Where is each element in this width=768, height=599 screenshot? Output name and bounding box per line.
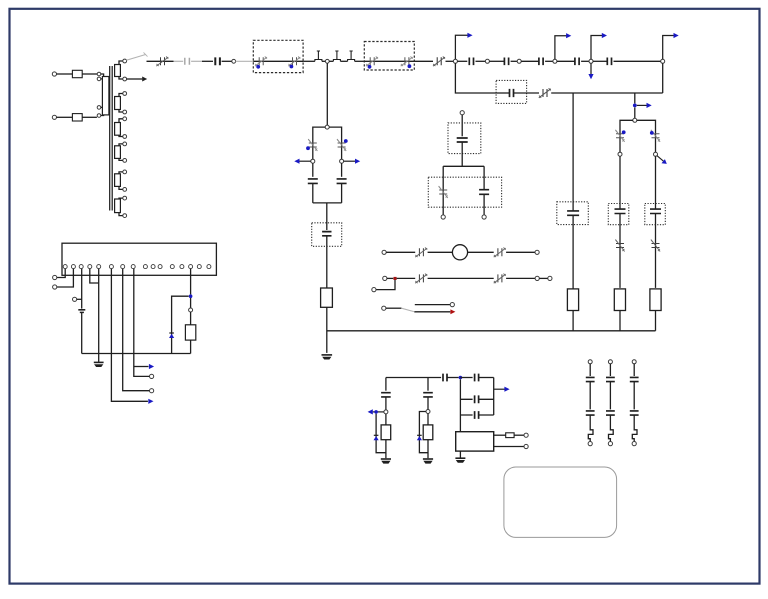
capacitor CF2 box (dashed) — [608, 204, 629, 225]
breaker F3 — [652, 134, 660, 138]
wire — [593, 60, 607, 62]
wire snubber right leg — [493, 378, 495, 416]
capacitor C13 — [423, 393, 433, 397]
wire — [428, 251, 453, 253]
wire center drop — [326, 63, 328, 125]
transformer T1 secondary winding S5 — [115, 174, 121, 187]
wire split F2 F3 — [620, 120, 656, 152]
wire — [397, 277, 416, 279]
terminal branch G2 bottom — [608, 442, 612, 446]
breaker K1 — [309, 143, 317, 147]
capacitor CG2b — [606, 411, 615, 415]
thyristor valve group box V2 (dashed) — [364, 42, 414, 71]
wire — [457, 60, 467, 62]
wire pin3 out — [81, 269, 83, 309]
transformer T1 primary winding — [102, 77, 109, 115]
transformer T1 core — [110, 66, 113, 211]
arrow pin6 — [148, 399, 153, 404]
wire — [506, 251, 535, 253]
wire — [340, 60, 347, 62]
wire — [551, 92, 663, 94]
wire — [190, 340, 192, 353]
node F3 — [654, 152, 658, 156]
wire branch G2 — [609, 364, 611, 376]
wire — [427, 397, 429, 410]
status dot V2a — [368, 65, 372, 69]
wire top rail — [386, 377, 441, 379]
terminal branch G3 top — [632, 360, 636, 364]
wire — [386, 307, 402, 309]
connector J1 pin 12 — [170, 265, 174, 269]
node leg1 — [384, 410, 388, 414]
capacitor CG1a — [586, 377, 595, 381]
connector J1 pin 3 — [79, 265, 83, 269]
wire pin4 out — [90, 269, 99, 283]
node N1 — [453, 59, 457, 63]
transformer T1 secondary winding S6 — [115, 199, 121, 213]
wire — [385, 440, 387, 459]
capacitor C12 — [381, 393, 391, 397]
thyristor valve group box V1 (dashed) — [253, 40, 303, 72]
capacitor C14 — [475, 395, 479, 403]
breaker V2b — [405, 57, 409, 65]
wire — [329, 60, 333, 62]
wire split arms — [313, 127, 342, 159]
connector J1 pin 1 — [63, 265, 67, 269]
wire — [447, 377, 459, 379]
capacitor C3 — [469, 58, 473, 66]
wire — [82, 116, 97, 118]
wire — [57, 116, 73, 118]
wire through V1 — [253, 60, 303, 62]
capacitor C16 box (dashed) — [448, 123, 481, 154]
module U1 — [456, 432, 494, 451]
wire loop right drop — [662, 63, 664, 93]
wire — [514, 434, 524, 436]
connector J1 pin 4 — [88, 265, 92, 269]
terminal row2 right A — [535, 276, 539, 280]
switch SW2 blade (open) — [401, 308, 414, 311]
capacitor CF2 — [619, 204, 621, 225]
node terminal — [232, 59, 236, 63]
wire — [468, 251, 494, 253]
stub insulator 2 — [333, 51, 340, 61]
wire filter split bar — [443, 166, 484, 215]
ground center — [322, 354, 333, 356]
terminal branch G1 bottom — [588, 442, 592, 446]
wire — [539, 277, 548, 279]
wire loop left drop — [455, 63, 496, 93]
wire gray segment — [174, 60, 184, 62]
terminal pin7 out — [150, 389, 154, 393]
arrow tap at N1 — [455, 35, 467, 59]
wire through V2 — [364, 60, 414, 62]
capacitor CF3 box (dashed) — [645, 204, 666, 225]
wire — [386, 251, 415, 253]
connector block J1 — [62, 243, 216, 275]
terminal row2 lower-left — [372, 288, 376, 292]
wire — [511, 60, 518, 62]
resistor R4 — [185, 325, 195, 340]
node center split — [325, 125, 329, 129]
terminal row2 right B — [548, 276, 552, 280]
connector J1 pin 16 — [207, 265, 211, 269]
terminal input B — [52, 115, 56, 119]
wire — [633, 382, 635, 410]
node F2 — [618, 152, 622, 156]
disconnector F2 lower — [616, 244, 624, 248]
disconnector DS5 — [419, 274, 423, 282]
wire — [655, 225, 657, 288]
wire — [609, 382, 611, 410]
wire — [506, 277, 535, 279]
resistor R3 — [321, 288, 333, 307]
wire — [572, 311, 574, 331]
capacitor CK2 — [337, 179, 347, 184]
ground J1 — [94, 361, 104, 363]
resistor R7 — [506, 433, 514, 438]
diode D1 — [169, 332, 174, 334]
capacitor C2 — [215, 57, 220, 65]
wire branch G3 jog — [632, 415, 637, 442]
stub insulator 1 — [315, 51, 322, 61]
node primary taps — [97, 72, 101, 76]
wire branch G3 — [633, 364, 635, 376]
wire snubber left leg — [459, 379, 461, 431]
wire — [521, 60, 539, 62]
wire gray segment — [191, 60, 202, 62]
breaker V1a — [259, 57, 263, 65]
annotation frame (rounded) — [504, 467, 617, 537]
wire — [545, 60, 553, 62]
wire — [322, 60, 326, 62]
terminal pin8 out — [150, 374, 154, 378]
wire — [514, 92, 539, 94]
breaker V1b — [293, 57, 297, 65]
wire branch G1 — [589, 364, 591, 376]
arrow down at N5 — [590, 63, 592, 74]
wire gray segment — [236, 60, 254, 62]
wire row3 throw lower with red arrow — [414, 311, 450, 313]
wire pin8 out — [134, 269, 150, 377]
connector J1 pin 15 — [197, 265, 201, 269]
capacitor C5 — [539, 58, 543, 66]
terminal row2 left — [383, 276, 387, 280]
junction dot J1 loop — [189, 294, 193, 298]
wire — [312, 184, 314, 203]
ground leg1 — [381, 458, 391, 460]
capacitor C6 — [575, 58, 579, 66]
capacitor CG1b — [586, 411, 595, 415]
arrow output secondary S1 — [127, 78, 143, 80]
switch SW1 blade (open) at secondary S1 — [126, 54, 146, 60]
wire rejoin — [313, 184, 342, 231]
terminal branch G2 top — [608, 360, 612, 364]
wire — [303, 60, 315, 62]
breaker F2 — [616, 134, 624, 138]
transformer T1 secondary winding S3 — [115, 123, 121, 136]
wire — [461, 115, 463, 137]
capacitor CG3a — [630, 377, 639, 381]
ground bus wire — [327, 330, 656, 332]
connector J1 pin 5 — [97, 265, 101, 269]
wire loop left branch — [172, 296, 189, 353]
node N5 — [589, 59, 593, 63]
connector J1 pin 6 — [109, 265, 113, 269]
wire — [414, 60, 433, 62]
resistor R2 (series input B) — [72, 114, 82, 121]
stub insulator 3 — [348, 51, 355, 61]
terminal branch G1 top — [588, 360, 592, 364]
arrow tap at N5 — [591, 36, 602, 60]
breaker V2a — [370, 57, 374, 65]
arrow left at K1 — [300, 160, 311, 162]
wire — [57, 73, 73, 75]
node N6 — [661, 59, 665, 63]
capacitor CG3b — [630, 411, 639, 415]
capacitor C17 — [479, 190, 489, 195]
status dot K1 — [306, 146, 310, 150]
arrow tap at N4 — [555, 36, 567, 60]
terminal U1 out2 — [524, 444, 528, 448]
wire pin1 out — [57, 269, 65, 278]
arrow right at K2 — [344, 160, 355, 162]
connector J1 pin 10 — [151, 265, 155, 269]
terminal battery tap — [73, 297, 77, 301]
resistor R1 (series input A) — [72, 70, 82, 77]
wire — [387, 277, 393, 279]
arrow tap at N6 — [663, 36, 674, 60]
wire — [77, 298, 82, 300]
resistor R6 — [423, 425, 433, 440]
wire pin5 to ground — [98, 269, 100, 362]
breaker K2 — [338, 143, 346, 147]
connector J1 pin 14 — [189, 265, 193, 269]
capacitor C8 — [510, 89, 514, 97]
wire — [557, 60, 575, 62]
wire branch F1 drop — [572, 93, 574, 202]
capacitor C15 — [475, 411, 479, 419]
wire branch G2 jog — [609, 415, 614, 442]
wire — [589, 382, 591, 410]
node leg2 — [426, 410, 430, 414]
wire — [190, 312, 192, 325]
bus J1 bottom — [82, 353, 191, 355]
disconnector F3 lower — [652, 244, 660, 248]
resistor R5 — [381, 425, 391, 440]
junction dot with arrow — [633, 104, 637, 108]
wire branch G1 jog — [588, 415, 593, 442]
wire pin8 branch arrow — [134, 366, 149, 368]
wire top feeder — [147, 60, 174, 62]
connector J1 pin 11 — [158, 265, 162, 269]
capacitor C8 box (dotted) — [496, 80, 526, 103]
terminal filter left — [441, 215, 445, 219]
transformer T1 secondary winding S1 — [115, 65, 121, 77]
capacitor C16 — [457, 138, 468, 142]
capacitor C9 box (dotted) — [312, 223, 342, 247]
wire — [446, 60, 454, 62]
wire snubber mid rung — [460, 398, 493, 400]
status dot V1b — [290, 65, 294, 69]
wire — [326, 307, 328, 353]
wire — [614, 60, 661, 62]
wire — [655, 311, 657, 331]
node loop — [189, 308, 193, 312]
status dot V2b — [408, 64, 412, 68]
wire — [572, 225, 574, 289]
wire — [326, 236, 328, 288]
capacitor CF3 — [655, 204, 657, 225]
wire — [222, 60, 232, 62]
node N4 — [553, 59, 557, 63]
node N3 — [517, 59, 521, 63]
breaker filter left — [439, 190, 447, 194]
terminal row1 left — [382, 250, 386, 254]
terminal row3 upper — [450, 303, 454, 307]
terminal filter right — [482, 215, 486, 219]
wire — [428, 277, 494, 279]
wire — [312, 163, 314, 177]
capacitor CF1 — [572, 202, 574, 225]
disconnector DS3 — [419, 248, 423, 256]
node K1 — [311, 159, 315, 163]
wire U1 out2 — [494, 446, 524, 448]
wire — [427, 440, 429, 459]
diode D2 — [374, 434, 379, 436]
wire — [355, 60, 365, 62]
status dot K2 — [344, 139, 348, 143]
resistor RF2 — [614, 289, 625, 311]
capacitor C9 — [322, 232, 331, 236]
status dot F3 — [650, 131, 654, 135]
wire — [341, 163, 343, 177]
wire — [385, 397, 387, 410]
junction dot leg1 — [374, 410, 378, 414]
capacitor CK1 — [308, 179, 318, 184]
wire — [202, 60, 213, 62]
wire — [489, 60, 504, 62]
transformer T1 secondary winding S4 — [115, 146, 121, 159]
wire — [634, 107, 636, 118]
capacitor CG2a — [606, 377, 615, 381]
disconnector DS4 — [498, 248, 502, 256]
capacitor CF1 box (dashed) — [557, 202, 589, 225]
terminal branch G3 bottom — [632, 442, 636, 446]
wire — [82, 73, 97, 75]
terminal row3 left — [382, 306, 386, 310]
wire — [461, 142, 463, 166]
connector J1 pin 8 — [131, 265, 135, 269]
node primary bottom taps — [97, 106, 101, 110]
wire — [81, 313, 83, 354]
resistor RF1 — [567, 289, 578, 311]
resistor RF3 — [650, 289, 661, 311]
wire pin7 out — [123, 269, 150, 391]
wire — [619, 225, 621, 288]
wire — [581, 60, 589, 62]
arrow left leg1 — [373, 411, 384, 413]
wire leg1 bypass — [376, 414, 386, 453]
wire — [619, 156, 621, 203]
arrow diagonal at F3 — [657, 156, 664, 162]
wire — [655, 156, 657, 203]
capacitor C11 — [475, 374, 479, 382]
wire U1 out1 — [494, 434, 506, 436]
wire pin6 out — [111, 269, 147, 402]
wire leg2 bypass — [419, 412, 428, 453]
wire — [385, 414, 387, 425]
capacitor C10 — [443, 374, 447, 382]
terminal pin1 — [53, 275, 57, 279]
capacitor C4 — [504, 58, 508, 66]
wire — [190, 298, 192, 308]
filter box (dashed) — [428, 177, 501, 207]
wire — [619, 311, 621, 331]
diode D3 — [417, 434, 422, 436]
wire cap leg1 — [385, 378, 387, 391]
connector J1 pin 2 — [71, 265, 75, 269]
wire U1 ground — [459, 451, 461, 458]
wire pin14 down — [190, 269, 192, 295]
disconnector DS2 — [543, 89, 547, 97]
terminal input A — [52, 72, 56, 76]
node K2 — [340, 159, 344, 163]
wire branch F23 drop — [634, 93, 636, 103]
node N2 — [485, 59, 489, 63]
connector J1 pin 13 — [180, 265, 184, 269]
wire — [460, 377, 472, 379]
wire — [479, 377, 494, 379]
terminal U1 out1 — [524, 433, 528, 437]
connector J1 pin 7 — [121, 265, 125, 269]
status dot F2 — [622, 130, 626, 134]
node junction top bus — [325, 59, 329, 63]
disconnector DS1 — [437, 57, 441, 65]
breaker CB1 — [161, 57, 165, 65]
disconnector DS6 — [498, 274, 502, 282]
junction dot red — [394, 277, 397, 280]
wire row3 throw upper — [415, 304, 450, 306]
wire — [496, 92, 509, 94]
wire — [476, 60, 486, 62]
connector J1 pin 9 — [143, 265, 147, 269]
battery B1 — [78, 309, 85, 311]
capacitor C1 (gray) — [185, 58, 190, 65]
ground leg2 — [423, 458, 433, 460]
terminal filter top — [460, 111, 464, 115]
terminal row1 right — [535, 250, 539, 254]
ground U1 — [455, 457, 465, 459]
machine M1 — [452, 245, 467, 260]
wire cap leg2 — [427, 378, 429, 391]
node N7 — [633, 118, 637, 122]
transformer T1 secondary winding S2 — [115, 97, 121, 110]
arrow tap snubber — [494, 388, 505, 390]
wire snubber bottom rung — [460, 414, 493, 416]
capacitor C7 — [607, 58, 611, 66]
terminal pin2 — [53, 285, 57, 289]
junction dot rail — [459, 376, 463, 380]
wire row2 drop — [376, 280, 395, 290]
status dot V1a — [256, 65, 260, 69]
wire — [427, 414, 429, 425]
wire pin2 out — [57, 269, 74, 287]
